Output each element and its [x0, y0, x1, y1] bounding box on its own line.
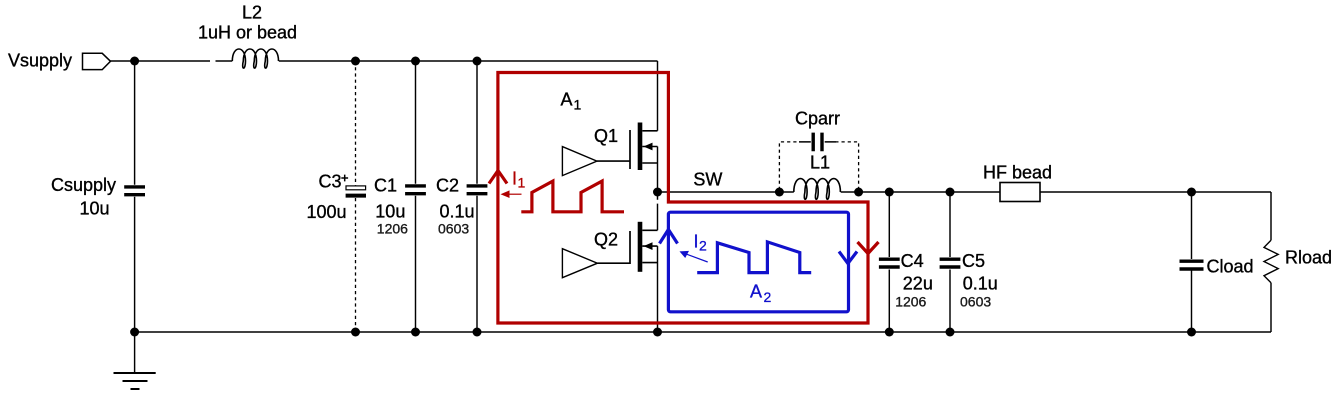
svg-text:HF bead: HF bead [983, 162, 1052, 182]
svg-text:C5: C5 [962, 251, 985, 271]
svg-text:0603: 0603 [960, 293, 991, 309]
svg-text:Cload: Cload [1207, 257, 1254, 277]
svg-text:I: I [512, 169, 517, 189]
svg-text:I: I [694, 232, 699, 252]
svg-text:1206: 1206 [895, 293, 926, 309]
svg-text:Q1: Q1 [594, 126, 618, 146]
svg-text:SW: SW [693, 170, 722, 190]
svg-text:1: 1 [574, 97, 582, 113]
svg-text:Rload: Rload [1285, 248, 1332, 268]
svg-text:1: 1 [518, 175, 526, 191]
svg-text:C2: C2 [436, 175, 459, 195]
svg-text:1uH or bead: 1uH or bead [198, 23, 297, 43]
svg-text:A: A [750, 282, 762, 302]
svg-text:L2: L2 [242, 3, 262, 23]
svg-text:2: 2 [764, 289, 772, 305]
svg-text:100u: 100u [307, 202, 347, 222]
svg-text:10u: 10u [80, 199, 110, 219]
svg-text:C3: C3 [319, 172, 342, 192]
svg-text:C1: C1 [374, 175, 397, 195]
svg-text:C4: C4 [901, 251, 924, 271]
svg-text:Cparr: Cparr [795, 109, 840, 129]
svg-text:A: A [561, 90, 573, 110]
svg-text:L1: L1 [810, 153, 830, 173]
svg-text:Csupply: Csupply [51, 175, 116, 195]
svg-text:0.1u: 0.1u [440, 201, 475, 221]
svg-text:22u: 22u [903, 273, 933, 293]
svg-text:0603: 0603 [438, 221, 469, 237]
svg-text:0.1u: 0.1u [963, 273, 998, 293]
svg-text:Vsupply: Vsupply [8, 51, 72, 71]
svg-text:1206: 1206 [377, 221, 408, 237]
svg-text:2: 2 [699, 238, 707, 254]
svg-text:Q2: Q2 [594, 230, 618, 250]
svg-text:10u: 10u [375, 201, 405, 221]
